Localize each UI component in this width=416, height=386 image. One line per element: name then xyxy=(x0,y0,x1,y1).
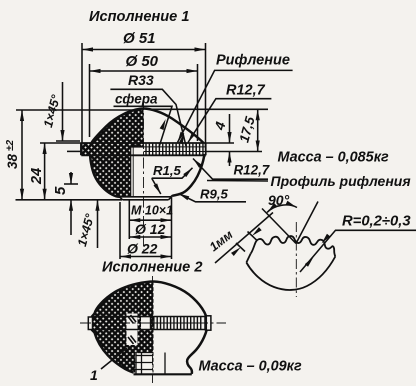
dimension 17,5 xyxy=(257,109,259,151)
svg-text:90°: 90° xyxy=(268,192,290,208)
knob 2 axis lines xyxy=(80,322,226,324)
svg-text:R12,7: R12,7 xyxy=(234,163,270,178)
knurl band xyxy=(81,143,205,155)
chamfer 1×45 lower xyxy=(97,200,99,248)
svg-text:R1,5: R1,5 xyxy=(153,163,182,178)
svg-text:R=0,2÷0,3: R=0,2÷0,3 xyxy=(342,214,411,230)
svg-text:Масса – 0,09кг: Масса – 0,09кг xyxy=(199,359,302,375)
dimension 4 xyxy=(229,114,231,143)
knob 2 face tip xyxy=(88,317,92,330)
svg-text:Исполнение 1: Исполнение 1 xyxy=(89,9,189,25)
svg-text:R12,7: R12,7 xyxy=(226,83,266,99)
sector with wavy teeth xyxy=(251,236,336,256)
svg-text:М 10×1: М 10×1 xyxy=(131,204,173,218)
svg-text:Масса – 0,085кг: Масса – 0,085кг xyxy=(278,150,389,166)
svg-text:Рифление: Рифление xyxy=(216,53,290,69)
svg-text:Исполнение 2: Исполнение 2 xyxy=(102,260,202,276)
knurl ticks xyxy=(146,144,203,155)
dimension D50 xyxy=(90,64,198,141)
svg-text:R9,5: R9,5 xyxy=(200,187,229,202)
svg-text:24: 24 xyxy=(29,168,45,185)
1mm dimension xyxy=(215,213,273,264)
knob 2 white slot (hole) xyxy=(127,314,138,346)
knob 2 knurl bar xyxy=(92,316,207,331)
dimension 5 xyxy=(64,183,78,185)
extension lines right of sphere xyxy=(151,108,268,110)
90 degree arc with arrows xyxy=(267,205,297,213)
chamfer 1×45 upper xyxy=(62,82,64,141)
threaded hole M10 section lines xyxy=(131,142,144,197)
knob 2 neck section lines xyxy=(134,353,165,374)
svg-text:1: 1 xyxy=(90,367,98,383)
svg-text:38: 38 xyxy=(5,153,20,169)
knob 2 hatched section xyxy=(92,282,154,373)
svg-text:Ø 50: Ø 50 xyxy=(126,53,159,70)
svg-text:Ø 51: Ø 51 xyxy=(123,30,156,47)
svg-text:Ø 22: Ø 22 xyxy=(127,241,158,257)
sector bottom arc xyxy=(246,257,335,290)
90 degree V lines xyxy=(262,202,318,244)
svg-text:сфера: сфера xyxy=(115,92,158,107)
svg-text:5: 5 xyxy=(52,186,69,195)
dimension D51 xyxy=(82,43,206,146)
svg-text:Ø 12: Ø 12 xyxy=(135,221,166,237)
detail centerline xyxy=(295,222,297,297)
svg-text:±2: ±2 xyxy=(5,140,16,151)
knob 1 centerline xyxy=(143,99,145,250)
dimension 38±2 xyxy=(16,109,133,111)
knob 1 outline thick xyxy=(81,109,143,197)
knob 1 bottom face with chamfer xyxy=(120,197,172,200)
svg-text:Профиль рифления: Профиль рифления xyxy=(271,173,411,189)
dimension 24 xyxy=(40,142,82,144)
knob 1 hatched section (left half) xyxy=(81,109,143,197)
knob 2 outline xyxy=(92,282,154,373)
svg-text:R33: R33 xyxy=(128,72,154,88)
dims M10x1, D12, D22 below knob xyxy=(120,197,172,259)
